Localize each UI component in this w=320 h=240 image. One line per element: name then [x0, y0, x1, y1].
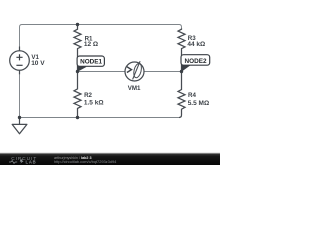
junction dot top (R1 / top rail)	[76, 23, 79, 26]
attribution text	[54, 156, 117, 164]
junction dot bottom (R2 / bottom rail)	[76, 116, 79, 119]
svg-text:NODE1: NODE1	[80, 59, 102, 66]
svg-text:VM1: VM1	[128, 85, 141, 92]
node NODE1 flag	[77, 56, 104, 72]
node NODE2 flag	[181, 55, 210, 72]
svg-text:44 kΩ: 44 kΩ	[187, 41, 205, 48]
junction dot ground (V1 / bottom rail)	[18, 116, 21, 119]
svg-text:LAB: LAB	[26, 159, 37, 164]
CircuitLab logo	[9, 156, 37, 165]
resistor R1	[74, 25, 98, 72]
wire bottom rail	[20, 117, 180, 119]
svg-text:R4: R4	[188, 92, 196, 99]
ground	[12, 118, 27, 134]
resistor R2	[74, 72, 104, 118]
svg-text:12 Ω: 12 Ω	[84, 41, 98, 48]
svg-text:1.5 kΩ: 1.5 kΩ	[84, 100, 104, 107]
watermark bar	[0, 153, 220, 165]
junction node B (NODE2 tee)	[180, 70, 183, 73]
svg-text:10 V: 10 V	[31, 60, 45, 67]
wire middle right: VM1 to NODE2	[144, 71, 182, 73]
resistor R4	[178, 72, 209, 118]
voltmeter VM1	[125, 61, 144, 92]
wire left vertical	[19, 74, 21, 117]
svg-text:http://circuitlab.com/c/bqt729: http://circuitlab.com/c/bqt7293z3d94	[54, 159, 117, 164]
wire middle left: NODE1 to VM1	[78, 71, 126, 73]
svg-text:NODE2: NODE2	[185, 58, 207, 65]
svg-text:5.5 MΩ: 5.5 MΩ	[188, 100, 209, 107]
wire top rail	[20, 25, 182, 47]
svg-text:R2: R2	[84, 92, 92, 99]
junction node A (NODE1 tee)	[76, 70, 79, 73]
resistor R3	[178, 28, 205, 71]
voltage source V1	[10, 47, 46, 75]
